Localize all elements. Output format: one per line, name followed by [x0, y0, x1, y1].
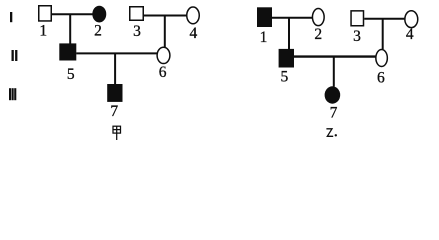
svg-text:5: 5	[67, 66, 75, 83]
svg-text:7: 7	[330, 105, 338, 122]
svg-text:4: 4	[190, 25, 198, 42]
svg-text:6: 6	[377, 69, 385, 86]
svg-text:5: 5	[281, 68, 289, 85]
svg-text:4: 4	[406, 26, 414, 43]
svg-text:1: 1	[260, 29, 268, 46]
svg-text:3: 3	[133, 23, 141, 40]
svg-text:7: 7	[110, 103, 118, 120]
svg-text:3: 3	[353, 28, 361, 45]
svg-text:1: 1	[39, 22, 47, 39]
svg-text:6: 6	[159, 64, 167, 81]
svg-text:2: 2	[94, 22, 102, 39]
svg-text:2: 2	[314, 26, 322, 43]
